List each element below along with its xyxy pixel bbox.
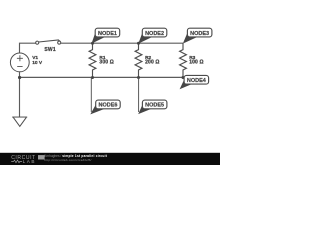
junction bottom left xyxy=(18,76,21,79)
node NODE3 flag xyxy=(183,28,212,43)
switch SW1 xyxy=(39,40,60,42)
node NODE5 flag xyxy=(138,78,167,115)
junction bottom R2 xyxy=(137,76,140,79)
svg-text:NODE4: NODE4 xyxy=(187,78,207,84)
node NODE2 flag xyxy=(138,28,167,43)
svg-text:300 Ω: 300 Ω xyxy=(99,60,114,66)
svg-text:10 V: 10 V xyxy=(32,60,43,66)
wire top rail xyxy=(61,42,183,44)
svg-text:NODE1: NODE1 xyxy=(98,31,117,37)
footer bar xyxy=(0,153,220,165)
node NODE6 flag xyxy=(90,78,120,115)
wire bottom rail xyxy=(20,76,184,78)
svg-text:LAB: LAB xyxy=(23,159,36,164)
junction bottom R1 xyxy=(91,76,94,79)
svg-text:http://circuitlab.com/c/ca3fuf: http://circuitlab.com/c/ca3fuf5/ xyxy=(44,158,91,162)
resistor R2 xyxy=(135,43,142,78)
wire top-left from V1 to switch xyxy=(20,43,36,53)
voltage source V1 xyxy=(10,53,29,72)
svg-text:NODE3: NODE3 xyxy=(190,31,209,37)
resistor R3 xyxy=(180,43,187,78)
node NODE1 flag xyxy=(92,28,120,43)
svg-text:NODE6: NODE6 xyxy=(98,103,117,109)
svg-text:200 Ω: 200 Ω xyxy=(145,60,160,66)
resistor R1 xyxy=(89,43,96,78)
svg-text:100 Ω: 100 Ω xyxy=(189,60,204,66)
junction top R2 xyxy=(137,42,140,45)
node NODE4 flag xyxy=(180,75,209,89)
svg-text:NODE5: NODE5 xyxy=(145,103,164,109)
wire V1 bottom xyxy=(19,72,21,78)
svg-text:SW1: SW1 xyxy=(44,47,55,53)
junction bottom R3 xyxy=(182,76,185,79)
ground xyxy=(19,78,21,118)
junction top R1 xyxy=(91,42,94,45)
CircuitLab logo xyxy=(11,155,44,164)
svg-text:NODE2: NODE2 xyxy=(145,31,164,37)
